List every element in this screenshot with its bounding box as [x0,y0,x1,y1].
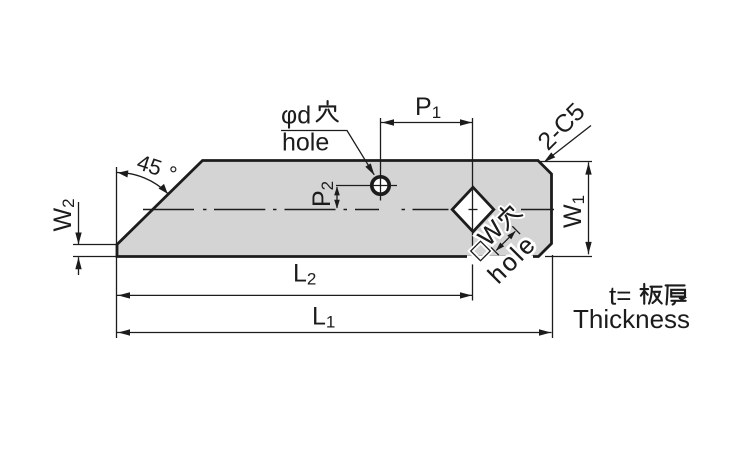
svg-text:φd: φd [281,102,311,130]
svg-text:hole: hole [282,129,329,157]
svg-text:Thickness: Thickness [573,304,690,334]
